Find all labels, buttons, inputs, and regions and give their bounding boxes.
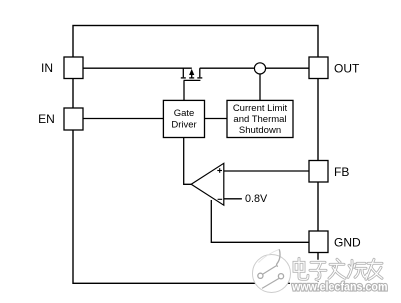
svg-text:Gate: Gate	[174, 108, 195, 119]
svg-text:EN: EN	[38, 112, 55, 126]
svg-text:Driver: Driver	[171, 119, 196, 130]
svg-text:www.elecfans.com: www.elecfans.com	[291, 282, 387, 294]
svg-text:Shutdown: Shutdown	[239, 125, 281, 136]
svg-text:and Thermal: and Thermal	[233, 114, 286, 125]
svg-text:0.8V: 0.8V	[245, 193, 268, 205]
svg-text:IN: IN	[41, 61, 53, 75]
svg-text:OUT: OUT	[334, 61, 360, 75]
svg-text:FB: FB	[334, 165, 349, 179]
svg-text:GND: GND	[334, 235, 361, 249]
svg-text:Current Limit: Current Limit	[233, 103, 288, 114]
